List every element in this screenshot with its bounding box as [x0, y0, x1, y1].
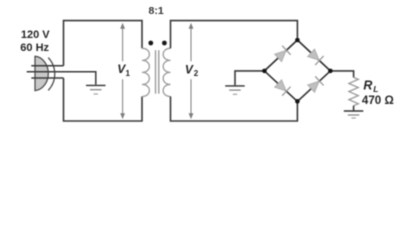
svg-text:R: R — [363, 79, 372, 93]
svg-text:60 Hz: 60 Hz — [20, 42, 49, 54]
svg-text:2: 2 — [194, 69, 199, 78]
svg-text:L: L — [373, 84, 378, 94]
svg-text:V: V — [185, 63, 194, 77]
svg-text:120 V: 120 V — [21, 29, 50, 41]
svg-text:1: 1 — [126, 69, 131, 78]
svg-text:470 Ω: 470 Ω — [362, 94, 394, 107]
svg-text:8:1: 8:1 — [149, 5, 164, 17]
